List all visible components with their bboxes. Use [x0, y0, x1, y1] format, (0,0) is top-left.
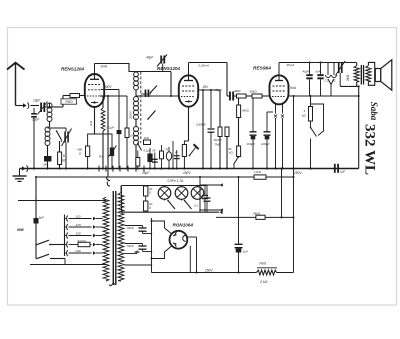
mains bottom wire: [30, 264, 106, 266]
hv tap: [125, 264, 152, 266]
svg-text:0,25mA: 0,25mA: [199, 63, 209, 67]
svg-text:0,5Fe 1,7A: 0,5Fe 1,7A: [168, 179, 184, 183]
lamp 3: [191, 187, 204, 200]
svg-text:17kΩ: 17kΩ: [254, 170, 262, 174]
svg-text:10pF: 10pF: [32, 118, 40, 122]
svg-text:RES964: RES964: [253, 66, 271, 72]
resistor 1k: [144, 140, 151, 145]
heater tap a: [125, 225, 143, 227]
tap 240: [67, 250, 68, 256]
tap 150: [67, 233, 68, 239]
svg-text:0,1: 0,1: [194, 204, 198, 208]
electrolytic 100uF a: [252, 98, 254, 131]
tone network rail: [199, 177, 201, 212]
tube2 internals: [184, 80, 193, 82]
svg-text:100μF: 100μF: [247, 142, 256, 146]
switch S2: [151, 86, 158, 93]
svg-text:86W: 86W: [17, 228, 25, 232]
switch S3: [148, 111, 156, 120]
svg-text:50nF: 50nF: [127, 244, 134, 248]
trimmer 40pF: [160, 56, 162, 64]
svg-text:50: 50: [152, 149, 156, 153]
variable tone cap: [338, 63, 340, 73]
svg-text:240: 240: [75, 249, 81, 253]
selector rail: [64, 215, 66, 257]
svg-text:1μF: 1μF: [340, 170, 345, 174]
bottom ht line: [152, 272, 257, 274]
svg-text:5nF: 5nF: [316, 70, 321, 74]
switch S6: [138, 144, 142, 151]
svg-text:1μF: 1μF: [243, 250, 248, 254]
svg-text:50kΩ: 50kΩ: [250, 90, 258, 94]
svg-text:1000pF: 1000pF: [196, 123, 206, 127]
plate wire: [95, 64, 172, 72]
capacitor trimmer 2: [33, 108, 35, 113]
output transformer secondary: [366, 66, 371, 82]
antenna: [15, 63, 17, 106]
resistor 30-10: [219, 90, 221, 127]
resistor 100: [70, 94, 80, 98]
wire: [120, 186, 122, 193]
svg-text:0,1μF: 0,1μF: [107, 126, 115, 130]
lamp 1: [158, 187, 171, 200]
svg-text:3mA: 3mA: [101, 65, 108, 69]
mains switch b: [36, 258, 38, 260]
lamp switch a: [168, 201, 175, 210]
resistor 50k: [252, 94, 262, 98]
svg-text:2kΩ: 2kΩ: [346, 74, 350, 82]
bias loop: [311, 104, 324, 136]
screen line: [288, 95, 358, 97]
potentiometer 10000: [101, 108, 105, 131]
wire: [48, 127, 67, 129]
rectifier wire 2: [189, 246, 191, 273]
svg-text:180V: 180V: [183, 171, 191, 175]
capacitor 1uF bus: [334, 164, 336, 173]
svg-text:40μF: 40μF: [303, 70, 310, 74]
wire: [16, 105, 24, 107]
svg-text:70pF: 70pF: [215, 88, 222, 92]
tap 110: [67, 216, 68, 222]
electrolytic 1uF: [235, 243, 243, 245]
rectifier RGN1064: [170, 231, 188, 249]
screen wire: [101, 89, 119, 91]
tube1 internals: [90, 78, 99, 80]
wire: [47, 146, 49, 157]
grid wire tube2: [136, 95, 179, 97]
antenna jack: [23, 103, 27, 107]
wire x293: [293, 96, 295, 273]
svg-text:4MΩ: 4MΩ: [234, 89, 241, 93]
svg-text:Saba: Saba: [369, 102, 379, 121]
mains drop wire: [35, 177, 37, 259]
wire x238: [238, 177, 240, 244]
svg-text:1kΩ: 1kΩ: [89, 120, 93, 126]
mains switch a: [36, 244, 38, 246]
trimmer capacitor C1: [40, 103, 42, 113]
tube3 filament legs: [275, 104, 277, 114]
filament line: [36, 176, 294, 178]
svg-text:10pF: 10pF: [33, 99, 41, 103]
wire: [47, 162, 49, 169]
electrolytic 100uF b: [266, 112, 268, 131]
svg-text:30mA: 30mA: [287, 63, 295, 67]
output transformer core: [361, 65, 362, 85]
svg-text:RENS1204: RENS1204: [61, 67, 84, 72]
resistor 1k if: [126, 96, 128, 128]
tube RENS1204 no1: [85, 74, 104, 107]
wire: [80, 95, 85, 97]
coil L2: [45, 127, 50, 132]
wire: [277, 272, 294, 274]
mains line: [18, 200, 106, 202]
tube2 cathode resistor: [188, 107, 190, 142]
svg-text:50nF: 50nF: [127, 226, 134, 230]
svg-text:7mA: 7mA: [290, 86, 297, 90]
svg-text:40pF: 40pF: [146, 56, 154, 60]
transformer primary: [103, 197, 109, 281]
tube RENS1204 no2: [179, 75, 198, 106]
svg-text:250V: 250V: [293, 171, 302, 175]
speaker: [375, 69, 381, 82]
field coil 2k: [257, 270, 277, 275]
svg-text:6μF: 6μF: [39, 216, 44, 220]
tube3 internals: [275, 80, 283, 82]
chassis jack: [22, 166, 26, 170]
rectifier anode wire: [152, 221, 172, 234]
IF coil tertiary: [134, 127, 139, 132]
tone network cap: [204, 185, 206, 195]
hv tap top: [125, 253, 138, 255]
IF core: [140, 72, 142, 143]
wire: [340, 85, 359, 87]
svg-text:700Ω: 700Ω: [65, 100, 73, 104]
Y junction: [328, 79, 334, 85]
lamp rail: [122, 185, 208, 187]
bus ticks: [98, 166, 100, 172]
ht line 2: [216, 216, 294, 218]
lamp 2: [175, 187, 188, 200]
svg-text:7MΩ: 7MΩ: [215, 142, 222, 146]
wire: [31, 105, 40, 107]
wire: [262, 95, 270, 97]
switch S4: [234, 157, 239, 165]
padder capacitor: [141, 93, 151, 95]
wire: [246, 95, 252, 97]
resistor 20a: [144, 186, 148, 196]
bus junction dots: [33, 167, 35, 169]
tuning capacitor: [64, 132, 66, 143]
IF coil primary: [134, 72, 139, 77]
tube RES964: [270, 75, 289, 104]
resistor small b: [160, 151, 164, 159]
heater tap b: [125, 243, 143, 245]
plate line: [279, 62, 357, 64]
svg-text:250V: 250V: [204, 268, 213, 272]
svg-text:332 WL: 332 WL: [362, 124, 378, 175]
IF coil secondary: [134, 97, 139, 102]
resistor 7M: [225, 127, 229, 137]
svg-text:RENS1204: RENS1204: [157, 66, 180, 71]
resistor 4M: [237, 94, 247, 98]
svg-text:110: 110: [76, 214, 81, 218]
tone capacitor C2: [333, 63, 335, 76]
svg-text:1kΩ: 1kΩ: [144, 136, 150, 140]
chassis bus: [20, 168, 359, 170]
svg-text:RGN1064: RGN1064: [173, 223, 194, 228]
block capacitor 240: [44, 156, 52, 162]
svg-text:400V: 400V: [104, 85, 112, 89]
svg-text:Feld: Feld: [260, 262, 267, 266]
svg-text:20μF: 20μF: [141, 171, 150, 175]
svg-text:20000: 20000: [129, 111, 133, 120]
antenna coil L1: [47, 103, 52, 108]
wire: [202, 90, 204, 169]
tap 125: [67, 224, 68, 230]
output transformer primary: [356, 63, 358, 66]
grid wire: [62, 96, 64, 108]
wire: [172, 141, 174, 169]
resistor 20b: [144, 201, 148, 211]
pickup hooks: [106, 177, 110, 181]
tone network bottom: [200, 209, 223, 211]
wire x152: [151, 218, 153, 273]
tone network top: [200, 184, 223, 186]
svg-text:125: 125: [76, 223, 81, 227]
tube2 screen wire: [198, 89, 220, 91]
cathode wire: [94, 107, 96, 134]
ground: [19, 169, 21, 176]
svg-text:18V: 18V: [203, 85, 210, 89]
avc line: [100, 95, 108, 97]
long wire: [107, 96, 109, 177]
mains capacitor: [34, 218, 39, 224]
svg-text:100μF: 100μF: [261, 142, 270, 146]
resistor 5k: [59, 141, 61, 152]
rectifier cathode wire: [152, 246, 172, 258]
svg-text:5: 5: [63, 154, 65, 158]
lamp switch b: [185, 201, 192, 210]
switch S5: [311, 128, 317, 137]
tone capacitor C1: [327, 63, 329, 76]
ht line: [122, 211, 220, 213]
svg-text:65kΩ: 65kΩ: [242, 109, 250, 113]
svg-text:150: 150: [76, 231, 81, 235]
rectifier right wire: [187, 236, 196, 238]
wire: [49, 122, 51, 128]
transformer secondary: [118, 193, 124, 282]
resistor small: [136, 158, 140, 167]
wire: [238, 253, 240, 273]
cathode resistor 400: [88, 134, 95, 146]
switch S7: [190, 148, 196, 156]
fuse 6-3-1A: [67, 242, 68, 248]
wire: [45, 106, 49, 108]
wire x279: [281, 169, 283, 218]
svg-text:2 kΩ: 2 kΩ: [259, 280, 268, 284]
tube2 plate wire: [189, 62, 228, 64]
lamp capacitor: [206, 186, 208, 198]
resistor 65k: [238, 98, 240, 105]
band switch S1: [57, 131, 62, 140]
coupling capacitor 70pF: [229, 92, 231, 101]
wire: [170, 72, 172, 97]
transformer core: [113, 191, 114, 285]
potentiometer R1: [95, 134, 113, 148]
